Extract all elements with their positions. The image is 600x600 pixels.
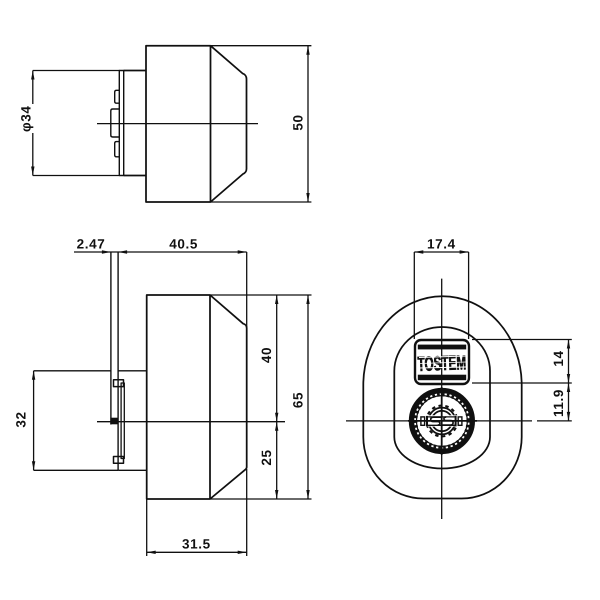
dimension 14/11.9 line: [568, 340, 570, 421]
key slot top line: [427, 416, 456, 418]
dimension 65 line: [307, 295, 309, 499]
TOSTEM badge frame: [415, 340, 469, 384]
TOSTEM badge top bar: [418, 345, 466, 350]
view3 horizontal center line: [346, 420, 532, 422]
dimension 31.5 arrow left: [147, 551, 156, 554]
dimension 14/11.9 shared extension: [472, 382, 572, 384]
dimension 40 arrow down: [275, 413, 278, 422]
view1 cylinder bottom edge: [124, 175, 146, 177]
dimension 25 line: [276, 422, 278, 499]
knob crosshair horizontal: [408, 420, 477, 422]
view2 plate lower clip: [114, 457, 124, 464]
view2 plate front line: [110, 252, 112, 425]
dimension 32 arrow down: [32, 461, 35, 470]
dimension 25 arrow down: [275, 490, 278, 499]
view2 cylinder top edge: [118, 370, 147, 372]
view2 plate back line: [117, 252, 119, 470]
dimension 14 arrow up: [567, 340, 570, 349]
svg-text:65: 65: [290, 392, 305, 408]
view1 tapered knob outline: [211, 46, 247, 202]
key slot left bar: [426, 416, 428, 427]
dimension 31.5 extension left: [146, 499, 148, 556]
view3 inner raised face outline: [394, 327, 490, 468]
dimension 31.5 line: [147, 551, 247, 553]
dimension 32 arrow up: [32, 371, 35, 380]
dimension 17.4 arrow left: [414, 250, 423, 253]
dimension 17.4 extension right: [468, 252, 470, 339]
dimension 17.4 arrow right: [460, 250, 469, 253]
dimension 40 line: [276, 295, 278, 422]
dimension 2.47 arrow right: [102, 250, 111, 253]
svg-text:40.5: 40.5: [169, 237, 198, 252]
view2 inner vertical edge: [209, 295, 211, 499]
dimension 40.5 extension right: [246, 252, 248, 328]
TOSTEM wordmark: [417, 352, 466, 376]
dimension 50 arrow up: [306, 46, 309, 55]
knob middle circle: [417, 396, 468, 447]
svg-text:14: 14: [551, 350, 566, 366]
view1 plate middle step: [111, 109, 120, 137]
svg-text:TOSTEM: TOSTEM: [417, 352, 466, 376]
view1 plate upper step: [115, 90, 120, 103]
knob crosshair vertical: [441, 387, 443, 455]
dimension 50 line: [307, 46, 309, 202]
dimension 17.4 line: [414, 251, 468, 253]
dimension phi34 extension bottom: [33, 175, 120, 177]
view2 plate narrow bar: [121, 383, 124, 459]
svg-text:25: 25: [259, 449, 274, 465]
dimension 17.4 extension left: [413, 252, 415, 339]
knob gear outer circle: [429, 408, 456, 435]
dimension phi34 label backing: [24, 104, 38, 133]
key slot left hook: [431, 417, 442, 425]
view2 key slot filled block: [110, 418, 117, 425]
view2 bottom edge extension right: [210, 498, 312, 500]
dimension 32 extension top: [34, 370, 111, 372]
svg-text:11.9: 11.9: [551, 389, 566, 417]
dimension 2.47/40.5 line: [74, 251, 247, 253]
dimension 31.5 extension right: [246, 469, 248, 556]
dimension 50 arrow down: [306, 193, 309, 202]
key slot right hook: [443, 417, 454, 425]
dimension 40.5 arrow left: [118, 250, 127, 253]
view1 horizontal center line: [97, 123, 258, 125]
dimension phi34 line: [32, 71, 34, 176]
svg-text:2.47: 2.47: [77, 237, 106, 252]
view2 top edge extension right: [210, 294, 312, 296]
knob outer knurled ring: [412, 391, 473, 452]
view3 outer escutcheon outline: [363, 296, 521, 498]
key slot right bar: [455, 416, 457, 427]
knob gear inner circle: [432, 411, 452, 431]
view1 mounting plate edge-on: [119, 71, 123, 176]
dimension phi34 arrow up: [31, 71, 34, 80]
dimension 50 extension top: [211, 45, 312, 47]
dimension 32 line: [33, 371, 35, 471]
dimension 11.9 arrow up: [567, 383, 570, 392]
key slot white backing: [420, 415, 463, 426]
svg-text:32: 32: [14, 411, 29, 427]
svg-text:φ34: φ34: [19, 106, 34, 132]
view2 horizontal center line: [97, 421, 285, 423]
view3 vertical center line: [441, 279, 443, 519]
dimension 25 arrow up: [275, 422, 278, 431]
dimension 50 extension bottom: [211, 201, 312, 203]
TOSTEM badge bottom bar: [418, 375, 466, 381]
dimension 14 arrow down: [567, 374, 570, 383]
knob knurl dashes: [416, 395, 469, 448]
dimension 11.9 arrow down: [567, 412, 570, 421]
dimension phi34 extension top: [33, 70, 120, 72]
view2 body outline: [147, 295, 247, 499]
dimension 14 extension top: [472, 339, 572, 341]
key slot left end cap: [421, 417, 425, 425]
dimension 65 arrow down: [306, 490, 309, 499]
svg-text:17.4: 17.4: [427, 237, 456, 252]
view3 horizontal center line extension: [537, 420, 572, 422]
dimension 32 extension bottom: [34, 469, 119, 471]
dimension phi34 arrow down: [31, 167, 34, 176]
svg-text:31.5: 31.5: [182, 537, 211, 552]
knob gear teeth: [427, 406, 458, 437]
dimension 40 arrow up: [275, 295, 278, 304]
dimension 65 arrow up: [306, 295, 309, 304]
svg-text:50: 50: [291, 114, 306, 130]
dimension 40.5 arrow right: [238, 250, 247, 253]
key slot bottom line: [427, 424, 456, 426]
dimension 31.5 arrow right: [238, 551, 247, 554]
view2 plate upper clip: [114, 380, 124, 387]
view1 cylinder top edge: [124, 70, 146, 72]
view2 cylinder bottom edge: [118, 469, 147, 471]
view1 plate lower step: [115, 142, 120, 157]
view1 body flange rectangle: [146, 46, 211, 202]
svg-text:40: 40: [259, 347, 274, 363]
key slot right end cap: [458, 417, 462, 425]
